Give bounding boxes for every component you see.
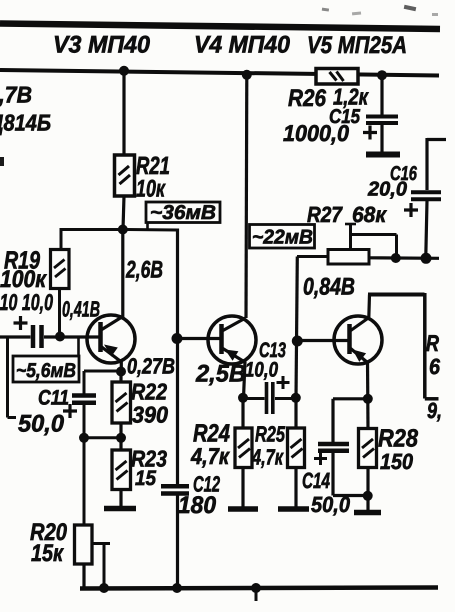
wire node A to V4 base line bbox=[122, 228, 178, 232]
node A (R21 bottom) bbox=[118, 225, 128, 235]
svg-text:~36мВ: ~36мВ bbox=[150, 202, 216, 224]
svg-text:9,: 9, bbox=[427, 398, 442, 423]
ground (C15) bbox=[366, 152, 400, 158]
capacitor C14 bbox=[314, 399, 368, 496]
node V4 base bbox=[172, 333, 183, 344]
svg-text:4,7к: 4,7к bbox=[190, 443, 230, 469]
svg-text:2,6В: 2,6В bbox=[125, 257, 163, 284]
resistor R20 bbox=[75, 525, 111, 589]
svg-text:0,41В: 0,41В bbox=[62, 297, 100, 322]
node R22/R23 bbox=[116, 433, 126, 443]
svg-text:6: 6 bbox=[429, 354, 441, 379]
node R27 tap/output bbox=[391, 253, 401, 263]
wire R27 left to V5 base line bbox=[296, 257, 328, 399]
wire V3 collector bbox=[121, 230, 124, 318]
wire C11 node to R20 bbox=[83, 438, 86, 525]
svg-text:R27: R27 bbox=[307, 202, 344, 227]
wire node A to C12 vertical line bbox=[176, 229, 179, 485]
svg-text:С10 10,0: С10 10,0 bbox=[0, 289, 53, 315]
wire V5 collector to output corner bbox=[368, 293, 439, 399]
ground (R25) bbox=[278, 506, 309, 512]
capacitor C13 bbox=[243, 376, 296, 414]
capacitor C10 bbox=[0, 316, 100, 348]
svg-text:V4 МП40: V4 МП40 bbox=[194, 32, 291, 59]
svg-text:С14: С14 bbox=[302, 468, 330, 493]
node V5 base bbox=[292, 336, 303, 347]
node V5 emitter bbox=[363, 394, 373, 404]
node V3 emitter bbox=[116, 367, 126, 377]
svg-text:0,7В: 0,7В bbox=[0, 82, 32, 108]
svg-text:68к: 68к bbox=[352, 202, 388, 227]
bottom common rail bbox=[80, 588, 438, 589]
wire R27 right (output) bbox=[369, 256, 439, 260]
node rail/R20 tap bbox=[99, 583, 109, 593]
svg-text:V3 МП40: V3 МП40 bbox=[53, 32, 151, 59]
wire V4 collector to rail2 bbox=[244, 75, 248, 318]
svg-text:0,84В: 0,84В bbox=[303, 274, 355, 301]
resistor R26 bbox=[316, 69, 358, 85]
transistor V4 bbox=[208, 316, 256, 364]
node V4 emitter / C13 / R24 bbox=[238, 393, 248, 403]
svg-text:50,0: 50,0 bbox=[18, 411, 65, 438]
svg-text:150: 150 bbox=[380, 449, 414, 474]
svg-text:1000,0: 1000,0 bbox=[283, 120, 349, 146]
ground (R23) bbox=[104, 506, 136, 512]
node: rail2 / R21 top bbox=[119, 66, 129, 76]
svg-text:~5,6мВ: ~5,6мВ bbox=[16, 360, 76, 382]
svg-text:~22мВ: ~22мВ bbox=[252, 227, 313, 249]
svg-text:С11: С11 bbox=[38, 387, 69, 410]
wire input branch at left bbox=[8, 337, 17, 418]
resistor R28 bbox=[359, 399, 377, 511]
transistor V5 bbox=[334, 316, 382, 364]
wire emitter to C11 bbox=[84, 371, 121, 394]
svg-text:R: R bbox=[426, 330, 439, 356]
transistor V3 bbox=[87, 315, 135, 363]
wire C11 to R22/R23 node bbox=[84, 436, 121, 439]
svg-text:4,7к: 4,7к bbox=[251, 445, 284, 470]
svg-text:50,0: 50,0 bbox=[311, 492, 351, 517]
wire V3 emitter bbox=[120, 361, 123, 372]
svg-text:10,0: 10,0 bbox=[245, 359, 278, 382]
svg-text:20,0: 20,0 bbox=[367, 179, 407, 201]
boxed label ~36мВ bbox=[146, 202, 220, 230]
capacitor C16 bbox=[404, 138, 446, 257]
node R28 bottom / C14 bbox=[363, 491, 373, 501]
boxed label ~5,6мВ bbox=[13, 337, 79, 382]
wire V5 base bbox=[297, 339, 349, 342]
resistor R27 (trimmer) bbox=[328, 224, 397, 265]
node: rail2 / C15 bbox=[377, 70, 387, 80]
ground (R28) bbox=[354, 510, 381, 516]
left edge tick bbox=[0, 157, 4, 166]
node C13 right / R25 bbox=[291, 393, 301, 403]
boxed label ~22мВ bbox=[250, 225, 315, 249]
svg-text:R26: R26 bbox=[288, 85, 327, 112]
capacitor C11 bbox=[63, 396, 96, 439]
capacitor C12 bbox=[161, 486, 189, 588]
svg-text:390: 390 bbox=[132, 402, 168, 428]
resistor R21 bbox=[115, 72, 135, 230]
resistor R22 bbox=[112, 371, 131, 438]
wire stub below rail bbox=[255, 588, 258, 601]
second supply rail bbox=[0, 70, 439, 76]
wire V4 base bbox=[177, 337, 221, 340]
resistor R19 bbox=[51, 250, 70, 337]
svg-text:Д814Б: Д814Б bbox=[0, 110, 51, 136]
svg-text:R25: R25 bbox=[255, 422, 286, 447]
resistor R24 bbox=[235, 398, 252, 507]
wire V5 emitter bbox=[366, 362, 369, 400]
svg-text:10к: 10к bbox=[136, 176, 166, 203]
svg-text:180: 180 bbox=[178, 492, 217, 519]
ground (R24) bbox=[228, 506, 258, 512]
node C11 bottom bbox=[79, 433, 89, 443]
resistor R25 bbox=[288, 397, 305, 507]
node: rail2 / V4 collector bbox=[242, 70, 252, 80]
resistor R23 bbox=[112, 438, 131, 507]
top supply rail (thick) bbox=[0, 24, 440, 30]
node rail/C12 line bbox=[172, 583, 182, 593]
node C10/R19/base bbox=[55, 332, 65, 342]
svg-text:15: 15 bbox=[135, 467, 156, 490]
svg-text:0,27В: 0,27В bbox=[127, 354, 175, 379]
svg-text:2,5В: 2,5В bbox=[195, 361, 246, 388]
wire V4 emitter bbox=[244, 362, 246, 399]
node rail stub bbox=[251, 583, 261, 593]
svg-text:15к: 15к bbox=[31, 540, 65, 567]
capacitor C15 bbox=[363, 75, 398, 152]
node C16/output bbox=[421, 253, 432, 264]
scan specks above top rail bbox=[322, 5, 438, 16]
wire node A to R19 bbox=[61, 228, 124, 250]
svg-text:V5 МП25А: V5 МП25А bbox=[307, 32, 407, 59]
